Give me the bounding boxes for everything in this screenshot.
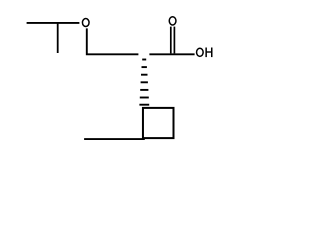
double bond C=O line 1 [170, 27, 172, 54]
bond CH-CH3 (junction methyl down) [57, 22, 59, 53]
atom O1 (ether oxygen) [82, 19, 89, 27]
cyclobutane ring (square) [143, 108, 174, 138]
atom O3 of hydroxyl (O of OH) [197, 48, 204, 56]
bond ring-substituent (bottom-left ethyl line) [84, 138, 145, 140]
bond O1-CH2-C2 (vertical then horizontal to stereocenter) [87, 28, 139, 54]
bond C2-C(=O)-O (right chain segment to carboxyl and hydroxyl) [149, 53, 194, 55]
atom O2 (carbonyl oxygen) [169, 17, 176, 25]
bond CH3-CH (top-left horizontal) [27, 22, 80, 24]
double bond C=O line 2 [173, 27, 175, 54]
hashed wedge bond (stereo, 7 dashes) [139, 60, 149, 105]
atom H of hydroxyl (H of OH) [206, 48, 212, 58]
